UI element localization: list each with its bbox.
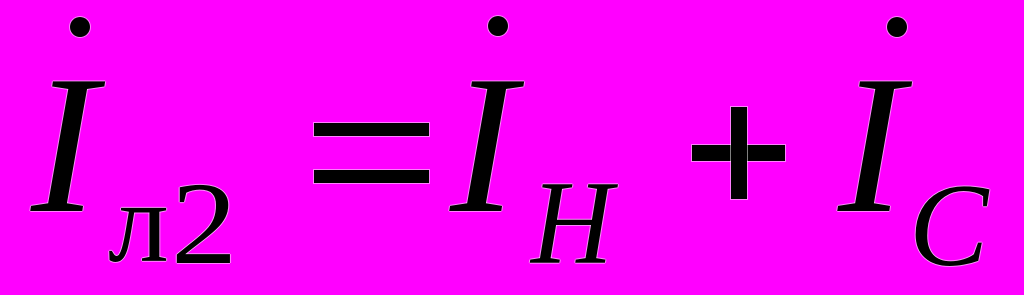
- subscript л (line index): [108, 166, 169, 282]
- derivative dot over I_л2: [70, 17, 90, 37]
- phasor current symbol I (letter I of İ_С): [838, 46, 904, 244]
- derivative dot over I_Н: [488, 16, 508, 36]
- plus sign horizontal bar: [692, 145, 785, 161]
- derivative dot over I_С: [887, 17, 907, 37]
- plus sign vertical bar: [731, 107, 747, 199]
- subscript Н (load index): [531, 164, 613, 283]
- subscript 2 (line index digit): [171, 165, 237, 283]
- subscript С (capacitor index): [909, 166, 988, 285]
- phasor current symbol I (letter I of İ_л2): [31, 46, 97, 244]
- phasor current symbol I (letter I of İ_Н): [450, 46, 516, 244]
- equals sign top bar: [314, 123, 429, 136]
- equals sign bottom bar: [314, 170, 429, 183]
